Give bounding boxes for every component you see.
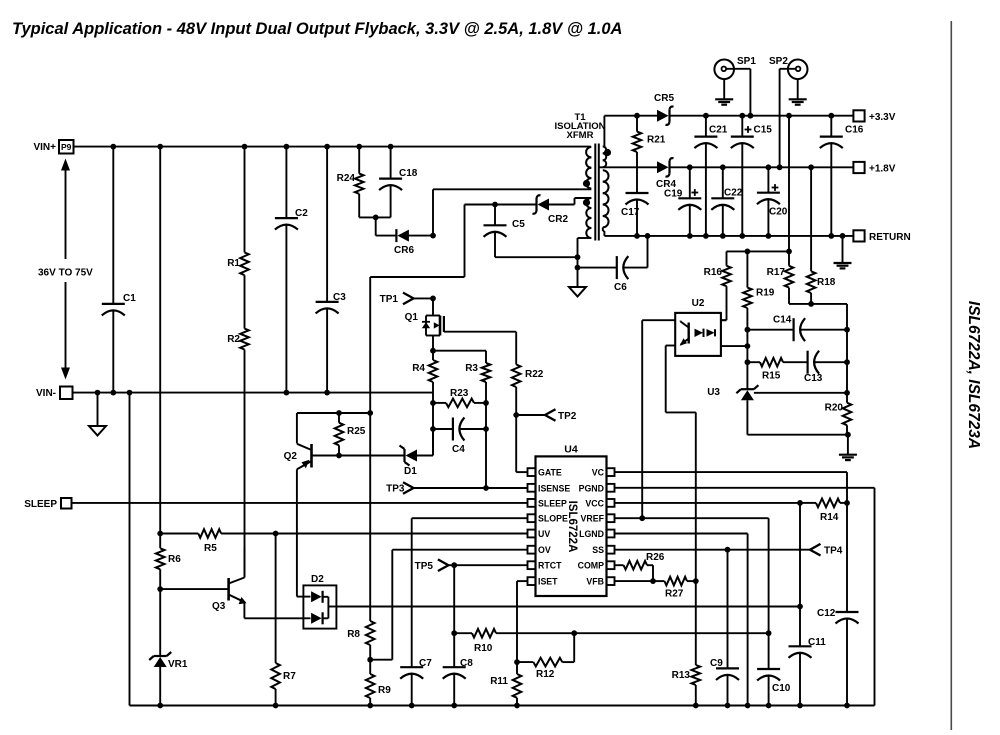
resistor R26 bbox=[615, 564, 624, 566]
resistor R14 bbox=[816, 499, 840, 508]
diode CR4 bbox=[657, 161, 669, 173]
transistor Q2 bbox=[296, 413, 298, 444]
capacitor C14 bbox=[747, 329, 793, 331]
svg-text:R5: R5 bbox=[204, 543, 217, 554]
capacitor C18 bbox=[390, 147, 392, 179]
svg-text:C13: C13 bbox=[804, 373, 823, 384]
svg-text:XFMR: XFMR bbox=[567, 130, 594, 141]
svg-text:Q1: Q1 bbox=[405, 312, 419, 323]
resistor R18 bbox=[810, 167, 812, 271]
wire secondary2 bottom bbox=[602, 227, 604, 231]
svg-text:SLOPE: SLOPE bbox=[538, 514, 568, 524]
wire top rail VIN+ bbox=[74, 146, 591, 148]
wire C4 left to D1 bbox=[432, 429, 434, 456]
resistor R3 bbox=[482, 363, 491, 382]
wire Q3 base row bbox=[160, 588, 228, 590]
svg-text:R15: R15 bbox=[762, 371, 781, 382]
capacitor C16 bbox=[830, 116, 832, 137]
wire C6 to RETURN bbox=[647, 236, 649, 268]
wire aux bottom bbox=[578, 237, 592, 239]
svg-text:R26: R26 bbox=[646, 552, 665, 563]
capacitor C15 bbox=[741, 116, 743, 137]
svg-text:R10: R10 bbox=[474, 643, 493, 654]
resistor R16 bbox=[726, 251, 728, 265]
wire Q1 source bbox=[432, 336, 434, 361]
resistor R22 bbox=[512, 365, 521, 388]
svg-text:SLEEP: SLEEP bbox=[24, 499, 57, 510]
diode CR5 bbox=[657, 110, 669, 122]
winding T1 aux bbox=[586, 198, 591, 208]
svg-text:CR5: CR5 bbox=[654, 93, 674, 104]
svg-text:D2: D2 bbox=[311, 574, 324, 585]
svg-text:R23: R23 bbox=[450, 388, 469, 399]
svg-text:C20: C20 bbox=[769, 207, 788, 218]
node +1.8V junctions bbox=[687, 164, 693, 170]
ground VIN- bbox=[97, 393, 99, 426]
svg-text:PGND: PGND bbox=[579, 483, 604, 493]
wire SS row bbox=[615, 549, 811, 551]
terminal +3.3V bbox=[853, 110, 864, 121]
resistor R20 bbox=[843, 403, 852, 426]
svg-text:ISET: ISET bbox=[538, 577, 558, 587]
wire bottom rail bbox=[130, 705, 875, 707]
svg-text:D1: D1 bbox=[404, 466, 417, 477]
capacitor C20 bbox=[767, 167, 769, 192]
wire R6 column top bbox=[159, 147, 161, 549]
svg-text:+1.8V: +1.8V bbox=[869, 164, 896, 175]
svg-text:C1: C1 bbox=[123, 293, 136, 304]
wire Q1 gate to R22 bbox=[444, 331, 516, 333]
svg-text:R19: R19 bbox=[756, 288, 775, 299]
svg-text:R7: R7 bbox=[283, 671, 296, 682]
svg-text:P9: P9 bbox=[61, 142, 72, 152]
svg-text:C22: C22 bbox=[724, 188, 743, 199]
svg-text:R24: R24 bbox=[337, 173, 356, 184]
svg-text:VREF: VREF bbox=[581, 514, 605, 524]
svg-text:C18: C18 bbox=[399, 168, 418, 179]
wire bias node row bbox=[297, 412, 370, 414]
wire RETURN rail bbox=[604, 235, 853, 237]
resistor R13 bbox=[695, 581, 697, 665]
svg-text:R18: R18 bbox=[817, 277, 836, 288]
wire U2 LED cathode bbox=[721, 345, 748, 347]
resistor R12 bbox=[573, 633, 575, 662]
wire U2 LED anode bbox=[721, 319, 727, 321]
svg-text:ISL6722A: ISL6722A bbox=[566, 501, 578, 553]
svg-text:R14: R14 bbox=[820, 512, 839, 523]
wire SLEEP row bbox=[72, 502, 528, 504]
capacitor C9 bbox=[727, 667, 729, 669]
svg-text:R9: R9 bbox=[378, 685, 391, 696]
capacitor C2 bbox=[285, 147, 287, 219]
winding T1 primary bbox=[586, 147, 591, 157]
wire VFB column bbox=[695, 412, 697, 581]
wire PGND row bbox=[615, 487, 875, 489]
transformer T1 core bbox=[594, 144, 596, 241]
svg-text:C6: C6 bbox=[614, 282, 627, 293]
node CR2 C5 bbox=[492, 202, 498, 208]
resistor R7 bbox=[275, 534, 277, 664]
svg-text:R27: R27 bbox=[665, 589, 684, 600]
wire R16 R19 top row bbox=[727, 250, 790, 252]
svg-text:ISENSE: ISENSE bbox=[538, 483, 570, 493]
wire R3 branch bbox=[433, 350, 486, 352]
testpoint TP2 bbox=[513, 412, 519, 418]
svg-text:U3: U3 bbox=[707, 387, 720, 398]
svg-text:C2: C2 bbox=[295, 208, 308, 219]
svg-text:CR6: CR6 bbox=[394, 245, 414, 256]
svg-text:C10: C10 bbox=[772, 683, 791, 694]
wire VREF row bbox=[615, 517, 769, 519]
wire C5 bottom bbox=[495, 256, 578, 258]
svg-text:C5: C5 bbox=[512, 219, 525, 230]
terminal SLEEP bbox=[61, 498, 72, 509]
wire UV row bbox=[276, 533, 528, 535]
svg-text:TP1: TP1 bbox=[380, 294, 399, 305]
wire secondary1 top bbox=[603, 116, 605, 147]
svg-text:COMP: COMP bbox=[578, 561, 605, 571]
svg-text:C21: C21 bbox=[709, 125, 728, 136]
op-amp U4 ISL6722A bbox=[536, 456, 607, 596]
resistor R15 bbox=[747, 361, 760, 363]
transistor Q3 bbox=[227, 578, 230, 601]
wire VC row bbox=[615, 471, 848, 473]
svg-text:C4: C4 bbox=[452, 444, 465, 455]
svg-text:SP1: SP1 bbox=[737, 56, 756, 67]
svg-text:SS: SS bbox=[592, 545, 604, 555]
wire OV link bbox=[370, 659, 392, 661]
resistor R24 bbox=[358, 147, 360, 174]
svg-text:C8: C8 bbox=[460, 658, 473, 669]
resistor R21 bbox=[636, 116, 638, 132]
resistor R9 bbox=[366, 674, 375, 698]
svg-text:R1: R1 bbox=[227, 258, 240, 269]
diode D1 zener bbox=[339, 455, 405, 457]
svg-text:TP3: TP3 bbox=[386, 484, 405, 495]
capacitor C8 bbox=[443, 666, 466, 668]
svg-text:C11: C11 bbox=[808, 637, 826, 648]
wire Q2 base row bbox=[312, 455, 340, 457]
wire R24 C18 join bbox=[359, 216, 390, 218]
svg-text:TP5: TP5 bbox=[415, 561, 434, 572]
wire U3 ground row bbox=[747, 434, 848, 436]
terminal VIN- bbox=[60, 387, 73, 400]
svg-text:OV: OV bbox=[538, 545, 551, 555]
svg-text:R20: R20 bbox=[825, 403, 844, 414]
svg-text:R4: R4 bbox=[412, 363, 425, 374]
winding T1 secondary1 bbox=[603, 147, 606, 154]
capacitor C21 bbox=[705, 116, 707, 137]
capacitor C11 bbox=[789, 645, 812, 647]
svg-text:Typical Application - 48V Inpu: Typical Application - 48V Input Dual Out… bbox=[12, 20, 622, 38]
diode CR2 bbox=[538, 199, 550, 211]
resistor R11 bbox=[516, 662, 518, 674]
svg-text:+3.3V: +3.3V bbox=[869, 112, 896, 123]
wire VIN- rail bbox=[73, 392, 434, 394]
wire VCC supply row bbox=[336, 606, 800, 608]
wire GATE entry bbox=[516, 471, 527, 473]
svg-text:C3: C3 bbox=[333, 292, 346, 303]
capacitor C4 bbox=[430, 426, 436, 432]
capacitor C3 bbox=[326, 147, 328, 302]
svg-text:R12: R12 bbox=[536, 669, 555, 680]
svg-text:VC: VC bbox=[592, 468, 605, 478]
testpoint TP4 bbox=[810, 544, 821, 556]
svg-text:RETURN: RETURN bbox=[869, 232, 911, 243]
diode CR6 bbox=[376, 235, 397, 237]
wire SLOPE row bbox=[412, 517, 528, 519]
svg-text:TP2: TP2 bbox=[558, 411, 577, 422]
capacitor C17 bbox=[626, 192, 649, 194]
svg-text:LGND: LGND bbox=[579, 529, 604, 539]
capacitor C1 bbox=[112, 147, 114, 304]
wire U2 collector to VREF bbox=[642, 319, 675, 321]
svg-text:RTCT: RTCT bbox=[538, 561, 562, 571]
svg-text:C17: C17 bbox=[621, 207, 640, 218]
svg-text:TP4: TP4 bbox=[824, 546, 843, 557]
capacitor C6 bbox=[578, 267, 617, 269]
capacitor C22 bbox=[722, 167, 724, 198]
diode VR1 zener bbox=[154, 655, 167, 657]
svg-text:VIN-: VIN- bbox=[36, 388, 56, 399]
svg-text:C15: C15 bbox=[754, 125, 773, 136]
side rule bbox=[950, 21, 952, 730]
input range arrow 36V TO 75V bbox=[65, 169, 67, 259]
wire +3.3V rail left bbox=[604, 115, 657, 117]
capacitor C10 bbox=[757, 668, 780, 670]
post SP2 bbox=[788, 60, 808, 80]
svg-text:C16: C16 bbox=[845, 125, 864, 136]
resistor R6 bbox=[156, 548, 165, 569]
svg-text:R6: R6 bbox=[168, 554, 181, 565]
wire C5 top jog bbox=[465, 204, 496, 206]
wire U3 ref row bbox=[754, 392, 847, 394]
resistor R10 bbox=[454, 632, 472, 634]
resistor R23 bbox=[432, 393, 434, 429]
winding T1 secondary2 bbox=[603, 170, 609, 181]
opto-isolator U2 bbox=[675, 313, 721, 356]
svg-text:VFB: VFB bbox=[586, 577, 604, 587]
svg-text:ISL6722A, ISL6723A: ISL6722A, ISL6723A bbox=[965, 301, 982, 449]
wire VCC row bbox=[615, 502, 801, 504]
wire ISET link bbox=[516, 581, 518, 662]
wire LGND row bbox=[615, 533, 748, 535]
wire RTCT column bbox=[453, 565, 455, 667]
wire +1.8V rail left bbox=[600, 166, 658, 168]
svg-text:R17: R17 bbox=[767, 267, 786, 278]
svg-text:CR2: CR2 bbox=[548, 214, 568, 225]
svg-text:R25: R25 bbox=[347, 426, 366, 437]
wire Q3 emitter row bbox=[244, 617, 303, 619]
resistor R17 bbox=[785, 266, 794, 288]
wire primary bottom to Q1 drain bbox=[433, 188, 591, 190]
svg-text:R3: R3 bbox=[465, 363, 478, 374]
svg-text:UV: UV bbox=[538, 529, 550, 539]
svg-text:C9: C9 bbox=[710, 658, 723, 669]
svg-text:U4: U4 bbox=[564, 444, 578, 456]
capacitor C5 bbox=[494, 205, 496, 226]
resistor R1 bbox=[244, 147, 246, 253]
terminal P9 VIN+ bbox=[59, 140, 74, 154]
transistor Q1 bbox=[432, 298, 434, 315]
capacitor C19 bbox=[689, 167, 691, 198]
capacitor C12 bbox=[836, 611, 859, 613]
diode D2 bbox=[303, 585, 336, 628]
terminal RETURN bbox=[853, 230, 864, 241]
capacitor C7 bbox=[400, 666, 423, 668]
svg-text:C12: C12 bbox=[817, 608, 836, 619]
capacitor C13 bbox=[806, 351, 808, 374]
resistor R2 bbox=[244, 275, 246, 328]
svg-text:C19: C19 bbox=[664, 189, 683, 200]
post SP1 bbox=[714, 60, 734, 80]
node top rail junctions bbox=[110, 144, 116, 150]
node +3.3V junctions bbox=[634, 113, 640, 119]
svg-text:R13: R13 bbox=[672, 670, 691, 681]
resistor R8 bbox=[366, 621, 375, 645]
wire R17 column bbox=[788, 116, 790, 266]
svg-text:SP2: SP2 bbox=[769, 56, 788, 67]
terminal +1.8V bbox=[853, 162, 864, 173]
shunt regulator U3 bbox=[741, 388, 754, 390]
svg-text:R8: R8 bbox=[347, 629, 360, 640]
svg-text:R16: R16 bbox=[704, 267, 723, 278]
svg-text:Q3: Q3 bbox=[212, 601, 226, 612]
svg-text:36V TO 75V: 36V TO 75V bbox=[38, 268, 93, 279]
svg-text:R2: R2 bbox=[227, 334, 240, 345]
wire VIN- to ground rail bbox=[129, 393, 131, 706]
svg-text:Q2: Q2 bbox=[284, 451, 298, 462]
node B dots bbox=[745, 327, 751, 333]
resistor R27 bbox=[615, 580, 654, 582]
ground feedback bbox=[847, 435, 849, 455]
svg-text:SLEEP: SLEEP bbox=[538, 498, 567, 508]
node VIN- rail junctions bbox=[95, 390, 101, 396]
resistor R19 bbox=[746, 251, 748, 287]
resistor R4 bbox=[429, 360, 438, 382]
svg-text:VCC: VCC bbox=[585, 498, 604, 508]
svg-text:R21: R21 bbox=[647, 135, 666, 146]
wire aux top to CR2 bbox=[575, 197, 592, 199]
svg-text:C14: C14 bbox=[773, 315, 792, 326]
resistor R5 bbox=[160, 533, 198, 535]
svg-text:U2: U2 bbox=[692, 298, 705, 309]
resistor R25 bbox=[338, 413, 340, 423]
svg-text:R11: R11 bbox=[490, 676, 508, 687]
svg-text:R22: R22 bbox=[525, 369, 544, 380]
ground RETURN bbox=[842, 236, 844, 263]
svg-text:C7: C7 bbox=[419, 658, 432, 669]
ground aux winding bbox=[577, 268, 579, 287]
svg-text:VIN+: VIN+ bbox=[33, 142, 56, 153]
svg-text:GATE: GATE bbox=[538, 468, 562, 478]
wire divider bottom row bbox=[789, 303, 847, 305]
svg-text:VR1: VR1 bbox=[168, 659, 188, 670]
wire bias column bbox=[369, 277, 371, 621]
